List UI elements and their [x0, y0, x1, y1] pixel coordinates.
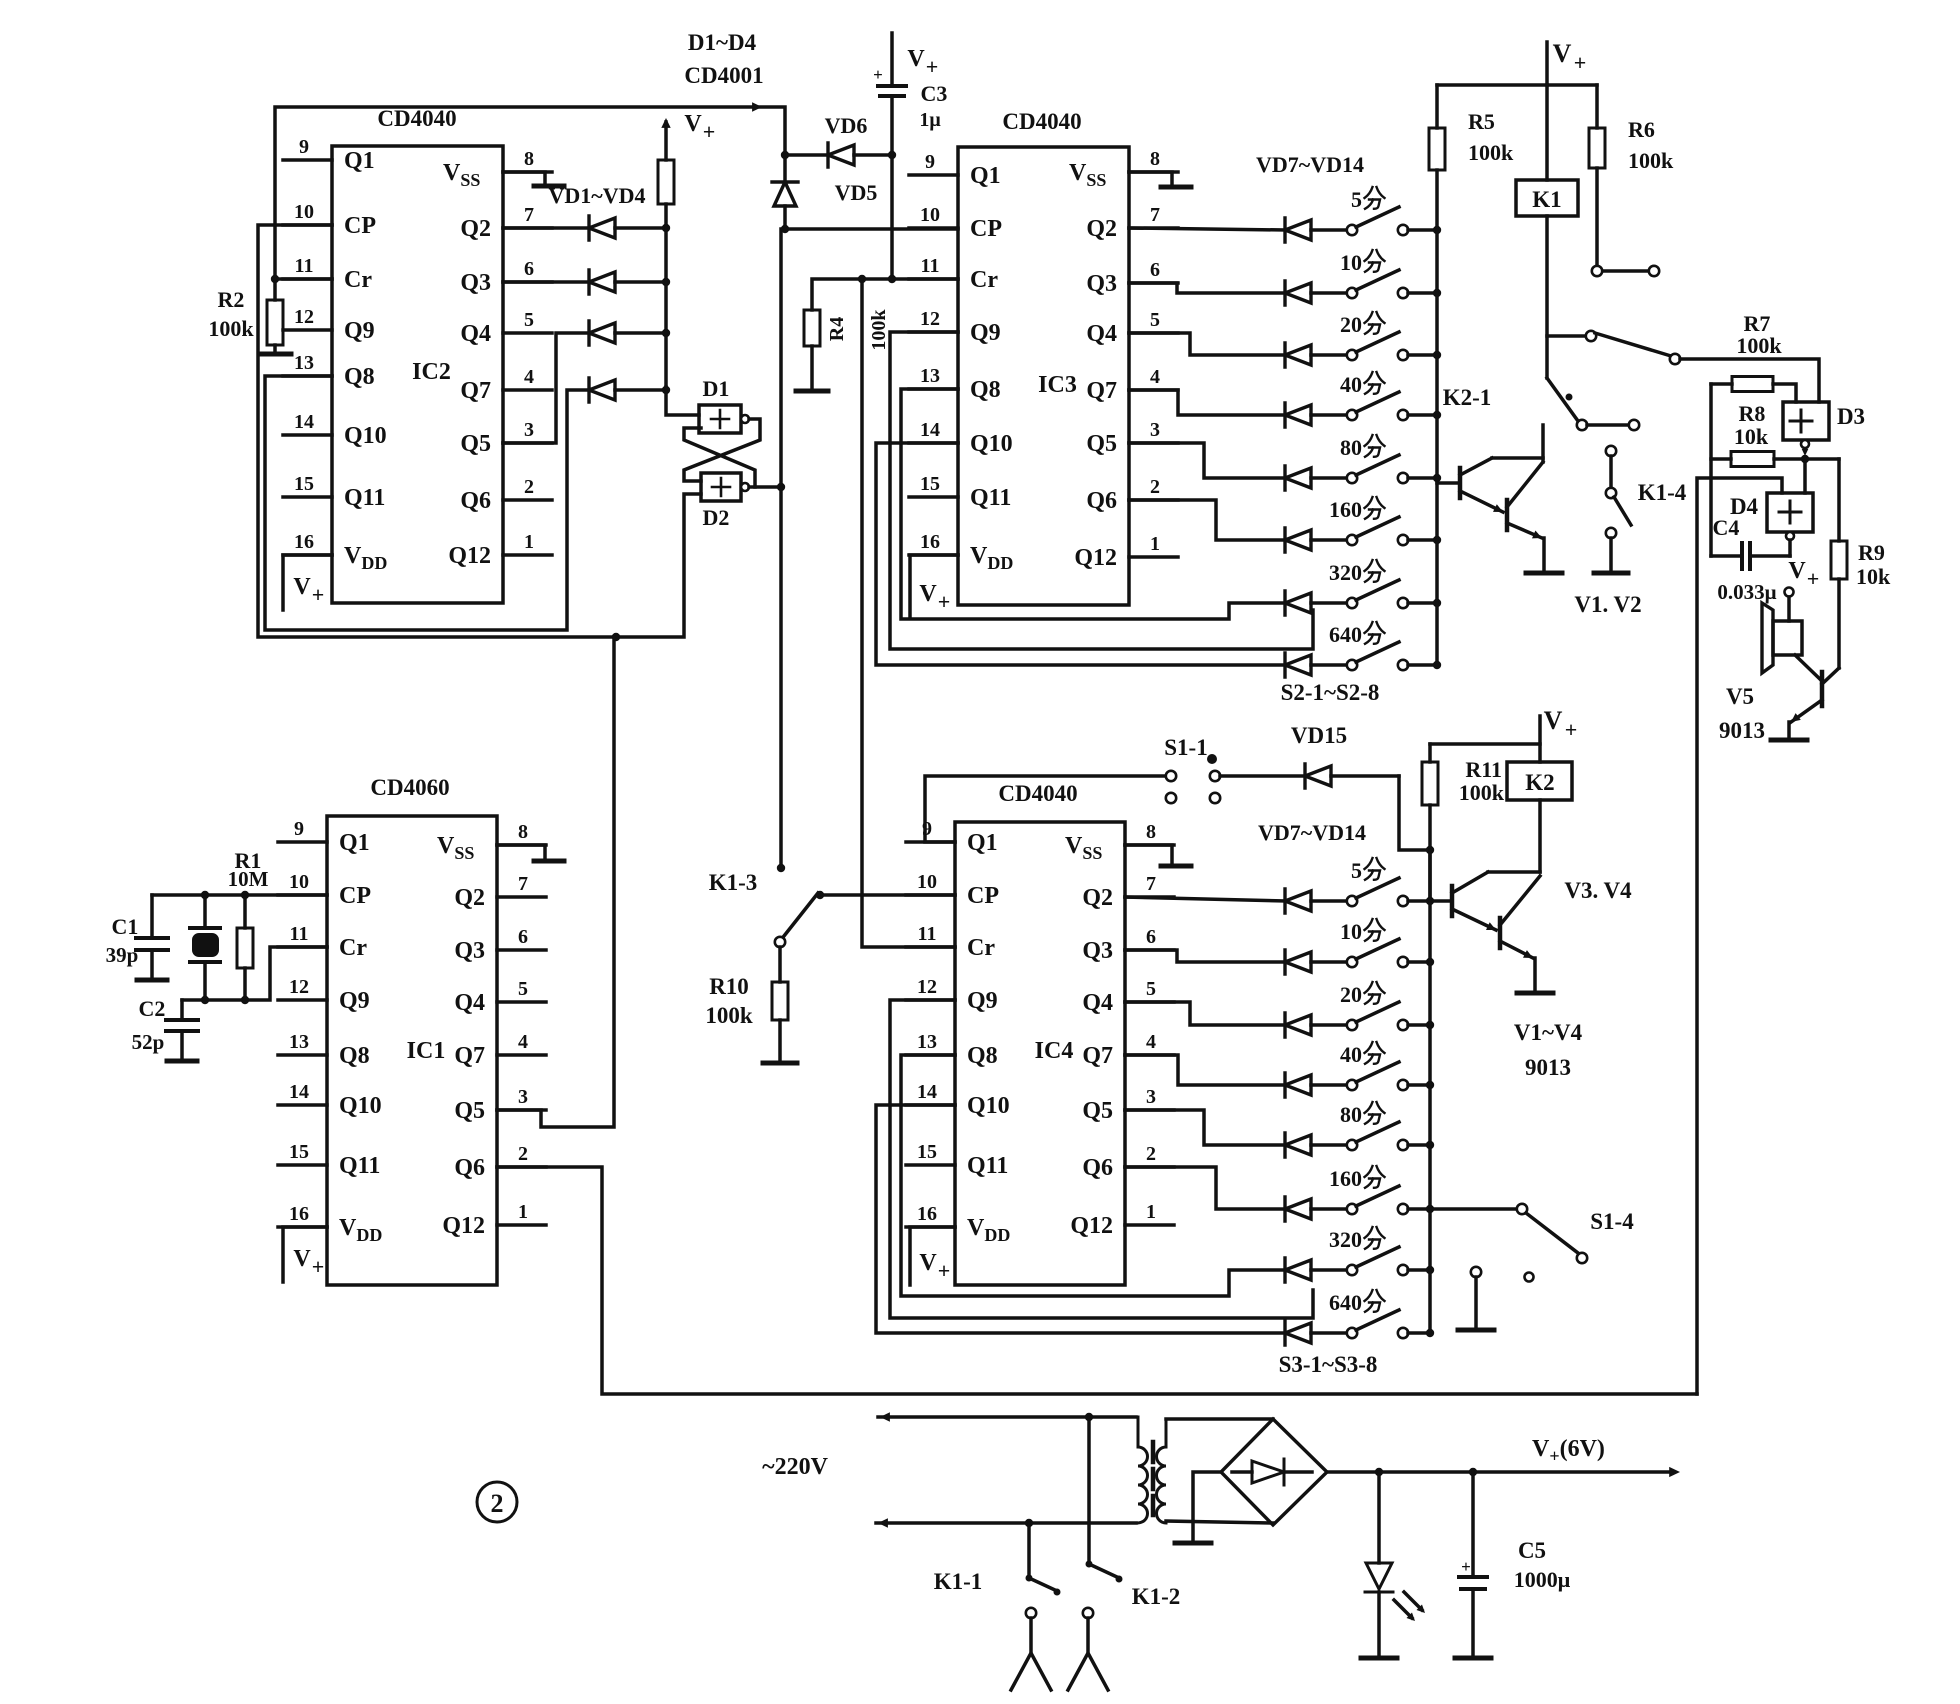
- transistor V3: [1430, 872, 1540, 930]
- svg-text:1: 1: [518, 1201, 528, 1223]
- oscillator: wire CP row: [152, 893, 327, 897]
- svg-text:Q4: Q4: [1082, 990, 1113, 1016]
- power V+ IC4 VDD: [910, 1227, 955, 1285]
- svg-text:16: 16: [294, 531, 314, 553]
- svg-text:1000μ: 1000μ: [1514, 1567, 1571, 1592]
- resistor R10 100k: [705, 937, 797, 1063]
- switch S2-2 10min: [1311, 250, 1437, 298]
- wire D2 output cross-couple to D1 input: [684, 428, 755, 487]
- svg-text:Q10: Q10: [344, 423, 387, 449]
- svg-text:15: 15: [920, 473, 940, 495]
- svg-text:13: 13: [289, 1031, 309, 1053]
- switch S3-3 20min: [1311, 982, 1430, 1030]
- svg-text:VD15: VD15: [1291, 723, 1347, 748]
- svg-text:CP: CP: [967, 883, 999, 909]
- node Cr IC2 junction: [271, 275, 279, 283]
- svg-text:Q2: Q2: [454, 885, 485, 911]
- svg-text:13: 13: [294, 352, 314, 374]
- svg-text:3: 3: [1150, 419, 1160, 441]
- svg-text:Q3: Q3: [454, 938, 485, 964]
- capacitor C1 39p: [106, 895, 168, 980]
- svg-text:K1-4: K1-4: [1638, 480, 1687, 505]
- svg-text:5: 5: [1150, 309, 1160, 331]
- svg-text:6: 6: [1150, 259, 1160, 281]
- node bus: [1433, 351, 1441, 359]
- wire Q4 jog: [1125, 1002, 1285, 1025]
- diode VD11: [1285, 466, 1311, 490]
- svg-text:Q4: Q4: [1086, 321, 1117, 347]
- svg-text:52p: 52p: [132, 1030, 165, 1054]
- contact under R6: [1592, 168, 1659, 276]
- resistor R1 10M: [228, 848, 269, 1000]
- svg-text:7: 7: [1150, 204, 1160, 226]
- svg-text:Q5: Q5: [454, 1098, 485, 1124]
- svg-text:IC3: IC3: [1038, 372, 1077, 398]
- svg-text:D1~D4: D1~D4: [688, 30, 757, 55]
- switch K1-3: [709, 864, 955, 936]
- svg-text:D1: D1: [703, 376, 730, 401]
- svg-text:9: 9: [299, 136, 309, 158]
- wire diode bus: [664, 204, 668, 387]
- svg-text:10: 10: [1340, 919, 1362, 944]
- svg-text:Q9: Q9: [970, 320, 1001, 346]
- node bus: [1426, 1266, 1434, 1274]
- svg-text:1: 1: [524, 531, 534, 553]
- svg-text:40: 40: [1340, 1042, 1362, 1067]
- svg-text:5: 5: [1351, 187, 1362, 212]
- node C5 tap: [1469, 1468, 1477, 1476]
- svg-text:10k: 10k: [1734, 424, 1769, 449]
- svg-text:16: 16: [920, 531, 940, 553]
- node VD6 left junction: [781, 151, 789, 159]
- switch S3-5 80min: [1311, 1102, 1430, 1150]
- svg-text:+: +: [312, 582, 325, 607]
- power V+ IC3 VDD: [910, 555, 958, 617]
- node Cr/IC4 riser junction: [858, 275, 866, 283]
- wire IC4 Q8 under-loop to 320min: [901, 1055, 1285, 1296]
- wire D1 output cross-couple to D2 input: [684, 419, 760, 481]
- svg-text:Q3: Q3: [1082, 938, 1113, 964]
- resistor R5 100k: [1429, 85, 1514, 170]
- svg-text:Q9: Q9: [344, 318, 375, 344]
- svg-text:Q12: Q12: [442, 1213, 485, 1239]
- wire AC top: [878, 1415, 1136, 1419]
- svg-text:80: 80: [1340, 435, 1362, 460]
- resistor R2 100k: [208, 279, 291, 354]
- switch S1-4: [1430, 1204, 1634, 1263]
- svg-text:Cr: Cr: [970, 267, 998, 293]
- wire to R9: [1837, 459, 1841, 541]
- node bus: [1426, 1021, 1434, 1029]
- diode VD14 (lower bank): [1285, 1321, 1311, 1345]
- svg-text:Q5: Q5: [1082, 1098, 1113, 1124]
- wire IC3 Q9 under-loop: [890, 332, 1313, 649]
- svg-text:1μ: 1μ: [919, 109, 941, 131]
- relay coil K2: [1507, 762, 1572, 872]
- switch S3-4 40min: [1311, 1042, 1430, 1090]
- wire Cr to R2: [275, 277, 332, 281]
- svg-text:V: V: [1788, 558, 1806, 584]
- gate D1 (CD4001 NOR): [699, 376, 749, 433]
- svg-text:Q11: Q11: [344, 485, 385, 511]
- svg-text:Q10: Q10: [339, 1093, 382, 1119]
- capacitor C2 52p: [132, 996, 198, 1061]
- svg-text:Q6: Q6: [1082, 1155, 1113, 1181]
- svg-text:16: 16: [917, 1203, 937, 1225]
- svg-text:160: 160: [1329, 497, 1362, 522]
- svg-text:4: 4: [1150, 366, 1160, 388]
- svg-text:7: 7: [524, 204, 534, 226]
- IC1 CD4060 oscillator-divider: [278, 775, 546, 1285]
- transistor V5 9013: [1719, 579, 1839, 743]
- svg-text:C2: C2: [139, 996, 166, 1021]
- transformer primary: [1138, 1417, 1148, 1523]
- node bus: [1433, 661, 1441, 669]
- wire bus to D1 input: [666, 387, 699, 415]
- svg-text:V: V: [293, 574, 311, 600]
- svg-text:CP: CP: [344, 213, 376, 239]
- label circled 2: [477, 1482, 517, 1522]
- svg-text:+: +: [1574, 50, 1587, 75]
- speaker: [1762, 603, 1802, 673]
- svg-text:8: 8: [1146, 821, 1156, 843]
- resistor R11 100k: [1422, 744, 1505, 901]
- svg-text:Q12: Q12: [1074, 545, 1117, 571]
- node bus junction: [662, 224, 670, 232]
- svg-text:13: 13: [917, 1031, 937, 1053]
- crystal: [190, 895, 220, 1000]
- diode VD3: [589, 321, 666, 345]
- wire IC3 Q8 under-loop to 320min: [901, 389, 1285, 619]
- power V+ speaker tap: [1785, 558, 1820, 621]
- capacitor C3 1u with V+: [873, 33, 947, 279]
- svg-text:9013: 9013: [1525, 1055, 1571, 1080]
- svg-text:R9: R9: [1858, 540, 1885, 565]
- diode VD12 (lower bank): [1285, 1197, 1311, 1221]
- node bus: [1433, 226, 1441, 234]
- svg-text:6: 6: [524, 258, 534, 280]
- svg-text:13: 13: [920, 365, 940, 387]
- diode VD2: [503, 270, 666, 294]
- wire rail R8 left: [1709, 384, 1713, 556]
- node bus: [1433, 599, 1441, 607]
- switch S2-1 5min: [1311, 187, 1437, 235]
- svg-text:0.033μ: 0.033μ: [1717, 580, 1776, 604]
- svg-text:S3-1~S3-8: S3-1~S3-8: [1279, 1352, 1378, 1377]
- switch K1-2: [1068, 1413, 1180, 1690]
- ground IC4 VSS: [1125, 845, 1191, 866]
- wire VD5 rail down to K1-3: [779, 229, 783, 868]
- wire CP row to IC3: [785, 227, 958, 231]
- wire secondary bottom: [1166, 1521, 1273, 1523]
- ground IC3 VSS: [1129, 172, 1191, 187]
- svg-text:14: 14: [917, 1081, 937, 1103]
- svg-text:V: V: [907, 46, 925, 72]
- svg-text:K1: K1: [1532, 187, 1561, 212]
- wire DC output V+(6V): [1327, 1470, 1672, 1474]
- music IC D4: [1730, 459, 1813, 540]
- svg-text:VD6: VD6: [825, 113, 868, 138]
- node D3 out junction: [1801, 455, 1809, 463]
- node bus R11: [1426, 846, 1434, 854]
- node CP row junction: [781, 225, 789, 233]
- switch S3-7 320min: [1311, 1227, 1430, 1275]
- switch S3-6 160min: [1311, 1166, 1430, 1214]
- svg-text:V: V: [293, 1246, 311, 1272]
- svg-text:D2: D2: [703, 505, 730, 530]
- svg-text:39p: 39p: [106, 943, 139, 967]
- svg-text:2: 2: [1150, 476, 1160, 498]
- wire IC1 Q5 riser: [497, 637, 614, 1127]
- diode VD4: [589, 378, 666, 402]
- svg-text:640: 640: [1329, 1290, 1362, 1315]
- resistor R4 100k: [796, 309, 890, 391]
- svg-text:Q1: Q1: [344, 148, 375, 174]
- svg-text:+: +: [1565, 717, 1578, 742]
- svg-text:R5: R5: [1468, 109, 1495, 134]
- ground IC1 VSS: [497, 845, 564, 861]
- resistor R9 10k: [1831, 540, 1891, 589]
- diode VD11 (lower bank): [1285, 1133, 1311, 1157]
- svg-text:Q5: Q5: [460, 431, 491, 457]
- svg-text:1: 1: [1150, 533, 1160, 555]
- node bus: [1433, 536, 1441, 544]
- diode VD14: [1285, 653, 1311, 677]
- diode VD10 (lower bank): [1285, 1073, 1311, 1097]
- svg-text:C5: C5: [1518, 1538, 1546, 1563]
- power V+ IC2 VDD: [283, 555, 332, 610]
- svg-text:7: 7: [518, 873, 528, 895]
- svg-text:Q8: Q8: [970, 377, 1001, 403]
- svg-text:12: 12: [294, 306, 314, 328]
- svg-text:Q7: Q7: [1086, 378, 1117, 404]
- svg-text:+: +: [312, 1254, 325, 1279]
- svg-text:VD7~VD14: VD7~VD14: [1256, 152, 1364, 177]
- svg-text:100k: 100k: [1468, 140, 1514, 165]
- svg-text:IC2: IC2: [412, 359, 451, 385]
- node bus: [1426, 1205, 1434, 1213]
- power V+ (relay rail): [1547, 39, 1586, 85]
- node bus: [1433, 474, 1441, 482]
- svg-text:Q6: Q6: [460, 488, 491, 514]
- svg-text:R10: R10: [709, 974, 749, 999]
- svg-text:S1-1: S1-1: [1164, 735, 1207, 760]
- wire Q2 to 5min diode: [1129, 228, 1285, 230]
- svg-text:Cr: Cr: [344, 267, 372, 293]
- svg-text:Q7: Q7: [454, 1043, 485, 1069]
- svg-text:Q1: Q1: [967, 830, 998, 856]
- IC4 CD4040 counter: [906, 781, 1174, 1285]
- svg-text:S2-1~S2-8: S2-1~S2-8: [1281, 680, 1380, 705]
- svg-text:100k: 100k: [1736, 333, 1782, 358]
- svg-text:R2: R2: [218, 287, 245, 312]
- svg-text:100k: 100k: [868, 309, 890, 351]
- svg-text:14: 14: [289, 1081, 309, 1103]
- svg-text:2: 2: [1146, 1143, 1156, 1165]
- svg-text:Q4: Q4: [460, 321, 491, 347]
- svg-text:8: 8: [518, 821, 528, 843]
- wire Q3 jog: [1129, 283, 1285, 293]
- svg-text:10: 10: [289, 871, 309, 893]
- wire Q2 to 5min diode: [1125, 897, 1285, 901]
- wire D2 out to vertical rail: [749, 485, 781, 489]
- svg-text:10: 10: [920, 204, 940, 226]
- LED indicator: [1361, 1472, 1425, 1658]
- svg-text:+: +: [703, 119, 716, 144]
- svg-text:10: 10: [294, 201, 314, 223]
- svg-text:Q9: Q9: [339, 988, 370, 1014]
- node LED tap: [1375, 1468, 1383, 1476]
- svg-text:Q8: Q8: [344, 364, 375, 390]
- wire top rail: [1437, 83, 1597, 87]
- svg-text:3: 3: [524, 419, 534, 441]
- svg-text:Q1: Q1: [970, 163, 1001, 189]
- wire IC4 Q9 under-loop: [890, 1000, 1313, 1318]
- svg-text:4: 4: [524, 366, 534, 388]
- svg-text:12: 12: [917, 976, 937, 998]
- transistor V4: [1500, 876, 1553, 993]
- svg-text:R6: R6: [1628, 117, 1655, 142]
- svg-text:2: 2: [518, 1143, 528, 1165]
- diode VD5: [772, 155, 877, 229]
- svg-text:160: 160: [1329, 1166, 1362, 1191]
- diode VD9 (lower bank): [1285, 1013, 1311, 1037]
- switch S2-6 160min: [1311, 497, 1437, 545]
- svg-text:15: 15: [289, 1141, 309, 1163]
- svg-text:CD4040: CD4040: [998, 781, 1077, 806]
- svg-text:+: +: [1461, 1557, 1471, 1576]
- diode VD12: [1285, 528, 1311, 552]
- diode VD1: [503, 216, 666, 240]
- svg-text:4: 4: [518, 1031, 528, 1053]
- svg-text:CD4001: CD4001: [684, 63, 763, 88]
- node: [201, 996, 209, 1004]
- wire IC3 Q10 under-loop to 640min: [876, 443, 1285, 665]
- diode VD8 (lower bank): [1285, 950, 1311, 974]
- wire IC1 Q6 long loop bottom: [497, 1167, 1697, 1394]
- IC3 CD4040 counter: [909, 109, 1178, 605]
- svg-text:IC4: IC4: [1035, 1038, 1074, 1064]
- svg-text:CD4040: CD4040: [1002, 109, 1081, 134]
- svg-text:320: 320: [1329, 1227, 1362, 1252]
- wire Q5 jog: [1125, 1110, 1285, 1145]
- ground IC2 VSS: [503, 172, 564, 186]
- svg-text:11: 11: [921, 255, 940, 277]
- power V+ pull-up resistor (top of bus): [658, 111, 715, 204]
- svg-text:5: 5: [1146, 978, 1156, 1000]
- svg-text:Q12: Q12: [448, 543, 491, 569]
- switch K2-1: [1443, 216, 1680, 410]
- svg-text:Q12: Q12: [1070, 1213, 1113, 1239]
- switch blade K2-1 lower: [1547, 378, 1578, 421]
- wire secondary top: [1166, 1417, 1273, 1421]
- wire IC2 CP loop (bottom) to D2 input: [258, 225, 701, 637]
- wire K2-1 to R7: [1680, 359, 1819, 402]
- svg-text:6: 6: [518, 926, 528, 948]
- gate D2 (CD4001 NOR): [701, 473, 749, 530]
- node bus junction: [662, 386, 670, 394]
- power V+ K2 rail: [1430, 706, 1577, 762]
- switch S2-4 40min: [1311, 372, 1437, 420]
- svg-text:V1. V2: V1. V2: [1574, 592, 1641, 617]
- svg-text:100k: 100k: [1628, 148, 1674, 173]
- svg-text:Q2: Q2: [1082, 885, 1113, 911]
- svg-text:11: 11: [918, 923, 937, 945]
- svg-text:Q2: Q2: [460, 216, 491, 242]
- svg-text:10k: 10k: [1856, 564, 1891, 589]
- svg-text:11: 11: [290, 923, 309, 945]
- svg-text:K1-2: K1-2: [1132, 1584, 1181, 1609]
- wire collector riser: [1541, 425, 1545, 462]
- svg-text:40: 40: [1340, 372, 1362, 397]
- svg-text:5: 5: [518, 978, 528, 1000]
- svg-text:Cr: Cr: [339, 935, 367, 961]
- switch K1-1: [934, 1519, 1061, 1690]
- svg-text:10: 10: [917, 871, 937, 893]
- relay coil K1: [1516, 85, 1578, 216]
- svg-text:K1-3: K1-3: [709, 870, 758, 895]
- svg-text:100k: 100k: [1459, 780, 1505, 805]
- svg-text:10: 10: [1340, 250, 1362, 275]
- svg-text:Q7: Q7: [1082, 1043, 1113, 1069]
- svg-text:8: 8: [1150, 148, 1160, 170]
- wire IC2 top loop to VD5 node: [275, 107, 785, 279]
- svg-text:R4: R4: [826, 317, 848, 341]
- node xtal top: [201, 891, 209, 899]
- node VD6/C3 junction: [888, 151, 896, 159]
- svg-text:11: 11: [295, 255, 314, 277]
- wire rail from bottom loop up to D4: [1697, 478, 1782, 1394]
- svg-text:Q6: Q6: [454, 1155, 485, 1181]
- wire Q4 jog: [1129, 333, 1285, 355]
- svg-text:Q1: Q1: [339, 830, 370, 856]
- svg-text:1: 1: [1146, 1201, 1156, 1223]
- svg-text:Q10: Q10: [967, 1093, 1010, 1119]
- svg-text:VD7~VD14: VD7~VD14: [1258, 820, 1366, 845]
- diode VD9: [1285, 343, 1311, 367]
- svg-text:2: 2: [491, 1489, 504, 1518]
- node bus: [1426, 897, 1434, 905]
- wire AC bottom: [876, 1521, 1136, 1525]
- transformer secondary: [1157, 1419, 1167, 1523]
- svg-text:CD4060: CD4060: [370, 775, 449, 800]
- diode VD10: [1285, 403, 1311, 427]
- diode VD15: [1220, 723, 1399, 788]
- node bus: [1433, 289, 1441, 297]
- capacitor C5 1000u: [1455, 1472, 1571, 1658]
- node bus junction: [662, 329, 670, 337]
- svg-text:14: 14: [294, 411, 314, 433]
- svg-text:320: 320: [1329, 560, 1362, 585]
- resistor R8b (lower): [1711, 452, 1839, 467]
- svg-text:5: 5: [524, 309, 534, 331]
- switch S2-5 80min: [1311, 435, 1437, 483]
- node bus: [1426, 958, 1434, 966]
- svg-text:V+(6V): V+(6V): [1532, 1436, 1605, 1466]
- switch S3-8 640min: [1311, 1290, 1430, 1338]
- svg-text:Q2: Q2: [1086, 216, 1117, 242]
- svg-text:S1-4: S1-4: [1590, 1209, 1634, 1234]
- svg-text:5: 5: [1351, 858, 1362, 883]
- svg-text:12: 12: [289, 976, 309, 998]
- wire Q3 jog: [1125, 950, 1285, 962]
- svg-text:Q7: Q7: [460, 378, 491, 404]
- svg-text:+: +: [938, 1258, 951, 1283]
- svg-text:640: 640: [1329, 622, 1362, 647]
- svg-text:15: 15: [917, 1141, 937, 1163]
- node R1 top: [241, 891, 249, 899]
- wire Cr row IC3: [812, 279, 958, 310]
